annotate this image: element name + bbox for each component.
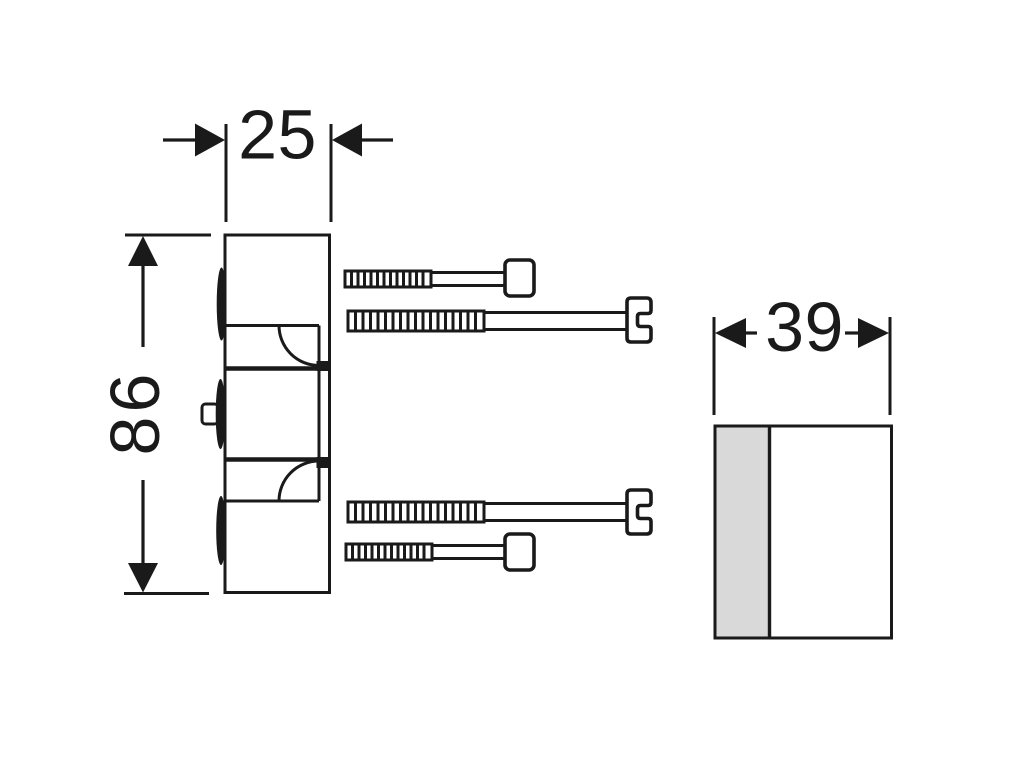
dimension 25: left extension line	[225, 124, 228, 222]
dimension 39: right extension line	[889, 317, 892, 415]
dimension 86: down arrowhead	[128, 563, 158, 593]
dimension 39: right arrowhead	[858, 318, 889, 348]
body: divider 3 (thick)	[225, 457, 330, 462]
svg-text:86: 86	[96, 370, 174, 456]
screw S2 (top long slotted): thread block	[348, 311, 484, 331]
dimension 39: left arrow tail	[744, 331, 757, 334]
dimension 25: right arrow tail	[359, 138, 393, 141]
body: divider 4 (thin, bottom of lower arc box)	[225, 500, 319, 503]
dimension 25: right arrowhead	[332, 124, 362, 157]
body: divider 2 (thick)	[225, 366, 330, 371]
dimension 39: right arrow tail	[845, 331, 860, 334]
dimension 39: left arrowhead	[715, 318, 746, 348]
dimension 25: right extension line	[330, 124, 333, 222]
svg-text:25: 25	[238, 96, 317, 174]
gasket lens middle	[216, 379, 226, 449]
dimension 86: bottom extension line	[124, 592, 209, 595]
dimension 86: lower dim line segment	[141, 480, 144, 566]
gasket lens bottom	[216, 496, 226, 565]
screw S2: shank	[484, 313, 628, 330]
nub on left of middle section	[202, 404, 218, 424]
dimension 25: left arrowhead	[195, 124, 225, 157]
screw S4 (bottom short socket-head): thread block	[346, 544, 432, 560]
dimension 25: left arrow tail	[163, 138, 198, 141]
svg-text:39: 39	[765, 288, 844, 366]
dimension 86: top extension line	[125, 234, 211, 237]
body: junction blob at divider 2	[317, 361, 332, 371]
screw S3: shank	[484, 504, 628, 521]
body: divider 1 (thin, top of upper arc box)	[225, 324, 319, 327]
screw S4: head	[505, 534, 534, 570]
screw S3: slotted head	[627, 490, 651, 534]
screw S1: head	[505, 260, 534, 296]
screw S4: shank	[432, 546, 507, 559]
body: junction blob at divider 3	[317, 457, 332, 468]
dimension 86: upper dim line segment	[141, 263, 144, 347]
screw S1: shank	[431, 273, 507, 286]
body: lower quarter arc	[279, 461, 319, 501]
side view: inner divider line	[768, 426, 771, 638]
screw S3 (bottom long slotted): thread block	[348, 502, 484, 522]
body: outer rectangle (front view)	[225, 235, 330, 593]
side view: outer rectangle	[715, 426, 892, 638]
screw S1 (top short socket-head): thread block	[345, 271, 431, 287]
dimension 86: up arrowhead	[128, 236, 158, 266]
dimension 39: left extension line	[713, 317, 716, 415]
side view: gray band fill	[715, 426, 768, 638]
gasket lens top	[217, 268, 227, 341]
body: inner vertical line	[318, 326, 321, 502]
screw S2: slotted head	[627, 298, 651, 342]
body: upper quarter arc	[279, 326, 319, 366]
